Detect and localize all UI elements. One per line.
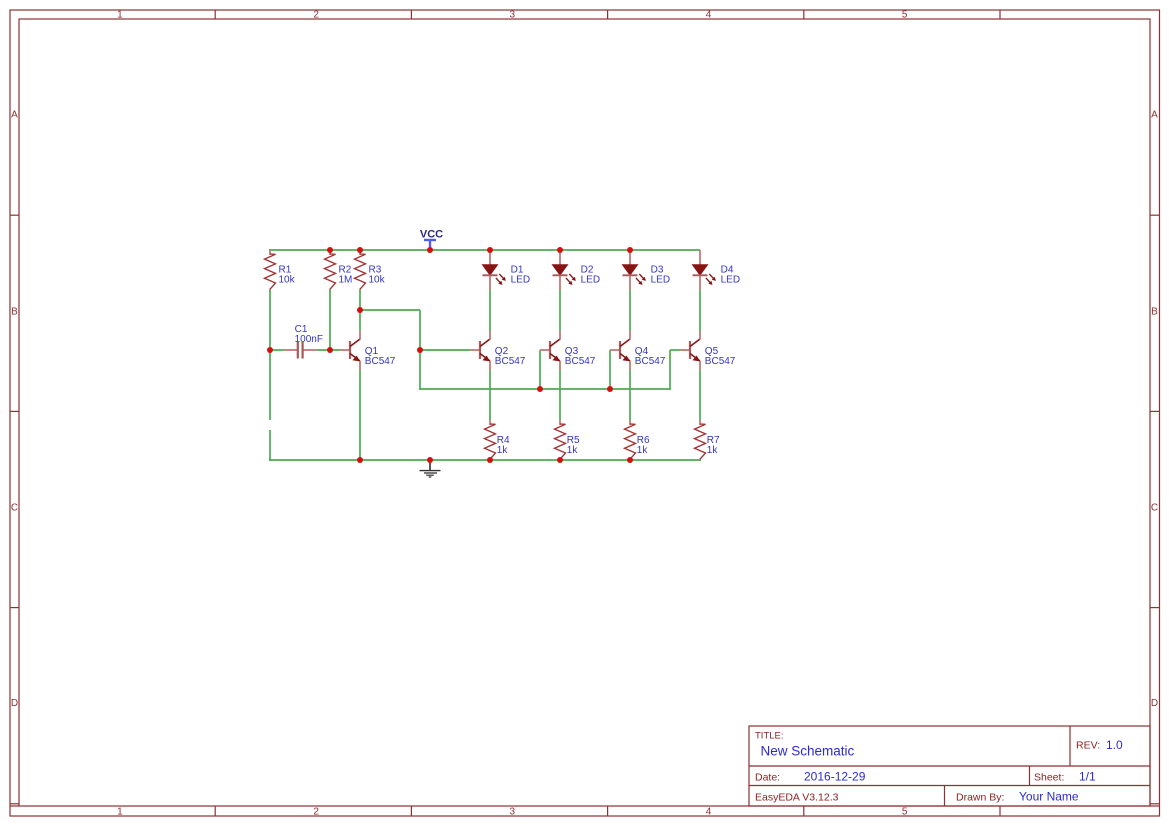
svg-text:5: 5: [902, 807, 908, 818]
junction (430,460): [427, 457, 433, 463]
wire LED cathode to collector x=490: [489, 290, 491, 331]
resistor R7: [695, 420, 721, 460]
wire Q4 base riser: [609, 350, 611, 390]
wire left vertical lower: [269, 430, 271, 461]
wire node A vertical x=420: [419, 310, 421, 390]
transistor Q4 (NPN BC547): [610, 331, 666, 370]
wire LED cathode to collector x=630: [629, 290, 631, 331]
svg-text:3: 3: [510, 807, 516, 818]
svg-text:LED: LED: [651, 275, 670, 286]
svg-text:BC547: BC547: [705, 356, 736, 367]
LED D3: [623, 250, 671, 290]
svg-text:C: C: [11, 503, 18, 514]
svg-text:1/1: 1/1: [1079, 770, 1096, 784]
junction (540,389): [537, 386, 543, 392]
svg-text:EasyEDA V3.12.3: EasyEDA V3.12.3: [755, 791, 839, 803]
wire C1 node horizontal: [269, 349, 284, 351]
junction (330,250): [327, 247, 333, 253]
resistor R5: [555, 420, 581, 460]
LED D2: [553, 250, 601, 290]
svg-text:BC547: BC547: [365, 356, 396, 367]
svg-text:B: B: [11, 307, 18, 318]
svg-text:1k: 1k: [637, 445, 649, 456]
svg-text:4: 4: [706, 807, 712, 818]
svg-text:LED: LED: [581, 275, 600, 286]
junction (490,460): [487, 457, 493, 463]
svg-text:Your Name: Your Name: [1019, 790, 1079, 804]
svg-text:BC547: BC547: [635, 356, 666, 367]
svg-text:10k: 10k: [279, 275, 296, 286]
svg-text:5: 5: [902, 10, 908, 21]
junction (630,460): [627, 457, 633, 463]
wire ground bottom rail: [269, 459, 701, 461]
resistor R2: [325, 250, 353, 290]
svg-text:D: D: [1151, 698, 1158, 709]
svg-text:1M: 1M: [339, 275, 353, 286]
svg-text:4: 4: [706, 10, 712, 21]
svg-text:Drawn By:: Drawn By:: [956, 791, 1004, 803]
title block: [749, 726, 1150, 806]
junction (330,350): [327, 347, 333, 353]
power VCC: [420, 228, 443, 250]
svg-text:1.0: 1.0: [1106, 738, 1123, 752]
wire Q1 collector riser: [359, 310, 361, 331]
wire C1 right to Q1 base: [317, 349, 340, 351]
junction (610,389): [607, 386, 613, 392]
svg-text:1k: 1k: [567, 445, 579, 456]
junction (360,250): [357, 247, 363, 253]
transistor Q1 (NPN BC547): [340, 331, 396, 370]
wire to Q2 base: [420, 349, 470, 351]
junction (560,460): [557, 457, 563, 463]
transistor Q3 (NPN BC547): [540, 331, 596, 370]
resistor R4: [485, 420, 511, 460]
svg-text:1k: 1k: [497, 445, 509, 456]
svg-text:2016-12-29: 2016-12-29: [804, 770, 866, 784]
svg-text:C: C: [1151, 503, 1158, 514]
junction (560,250): [557, 247, 563, 253]
wire emitter to resistor x=700: [699, 370, 701, 420]
wire emitter to resistor x=560: [559, 370, 561, 420]
wire base bus y=390: [420, 388, 670, 390]
wire Q5 base stub: [670, 349, 680, 351]
wire Q1 emitter down: [359, 370, 361, 461]
svg-text:TITLE:: TITLE:: [755, 731, 784, 742]
svg-text:1k: 1k: [707, 445, 719, 456]
wire left vertical upper: [269, 290, 271, 420]
resistor R3: [355, 250, 386, 290]
svg-text:10k: 10k: [369, 275, 386, 286]
LED D1: [483, 250, 531, 290]
transistor Q2 (NPN BC547): [470, 331, 526, 370]
LED D4: [693, 250, 741, 290]
wire emitter to resistor x=490: [489, 370, 491, 420]
svg-text:3: 3: [510, 10, 516, 21]
svg-text:2: 2: [313, 807, 319, 818]
svg-text:VCC: VCC: [420, 228, 443, 240]
svg-text:Date:: Date:: [755, 771, 780, 783]
svg-text:B: B: [1151, 307, 1158, 318]
transistor Q5 (NPN BC547): [680, 331, 736, 370]
svg-text:LED: LED: [721, 275, 740, 286]
junction (420,350): [417, 347, 423, 353]
svg-text:BC547: BC547: [495, 356, 526, 367]
capacitor C1 100nF: [284, 324, 323, 359]
junction (490,250): [487, 247, 493, 253]
svg-text:2: 2: [313, 10, 319, 21]
svg-text:LED: LED: [511, 275, 530, 286]
wire node A horizontal y=310: [360, 309, 420, 311]
resistor R6: [625, 420, 651, 460]
wire emitter to resistor x=630: [629, 370, 631, 420]
svg-text:D: D: [11, 698, 18, 709]
svg-text:A: A: [11, 110, 18, 121]
svg-text:1: 1: [117, 10, 123, 21]
junction (630,250): [627, 247, 633, 253]
wire R3 bottom to node: [359, 290, 361, 310]
svg-text:BC547: BC547: [565, 356, 596, 367]
svg-text:1: 1: [117, 807, 123, 818]
svg-text:New Schematic: New Schematic: [761, 744, 855, 759]
wire VCC top rail: [269, 249, 700, 251]
junction (430,250): [427, 247, 433, 253]
svg-text:100nF: 100nF: [295, 334, 323, 345]
wire Q5 base riser: [669, 350, 671, 390]
wire R2 bottom: [329, 290, 331, 351]
resistor R1: [265, 250, 296, 290]
wire LED cathode to collector x=560: [559, 290, 561, 331]
junction (270,350): [267, 347, 273, 353]
svg-text:REV:: REV:: [1076, 740, 1100, 752]
svg-text:Sheet:: Sheet:: [1034, 771, 1064, 783]
svg-text:A: A: [1151, 110, 1158, 121]
wire Q3 base riser: [539, 350, 541, 390]
wire LED cathode to collector x=700: [699, 290, 701, 331]
junction (360,310): [357, 307, 363, 313]
junction (360,460): [357, 457, 363, 463]
ground: [420, 460, 441, 477]
